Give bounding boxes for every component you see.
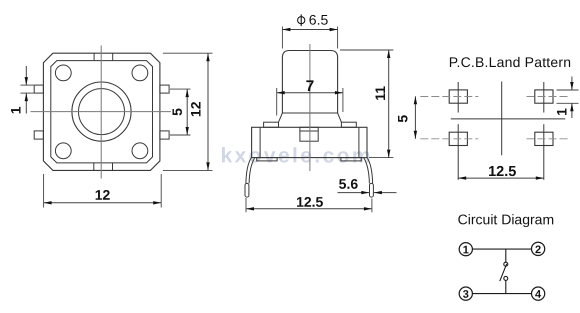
svg-text:1: 1 — [463, 244, 469, 256]
svg-text:Circuit Diagram: Circuit Diagram — [458, 211, 554, 227]
svg-text:11: 11 — [372, 86, 388, 101]
svg-text:12.5: 12.5 — [488, 164, 516, 180]
svg-text:5: 5 — [394, 115, 410, 123]
svg-text:12: 12 — [95, 187, 111, 203]
svg-text:2: 2 — [535, 244, 541, 256]
svg-text:P.C.B.Land Pattern: P.C.B.Land Pattern — [449, 54, 571, 70]
svg-text:3: 3 — [463, 289, 469, 301]
svg-text:12: 12 — [187, 101, 203, 117]
svg-text:7: 7 — [306, 78, 315, 95]
svg-text:5: 5 — [169, 108, 185, 116]
svg-text:1: 1 — [7, 106, 23, 114]
svg-text:6.5: 6.5 — [309, 12, 329, 28]
svg-text:4: 4 — [535, 289, 542, 301]
svg-text:5.6: 5.6 — [339, 176, 359, 192]
svg-text:kxovele.com: kxovele.com — [220, 144, 372, 167]
svg-text:1: 1 — [553, 108, 569, 116]
svg-text:12.5: 12.5 — [296, 194, 323, 210]
